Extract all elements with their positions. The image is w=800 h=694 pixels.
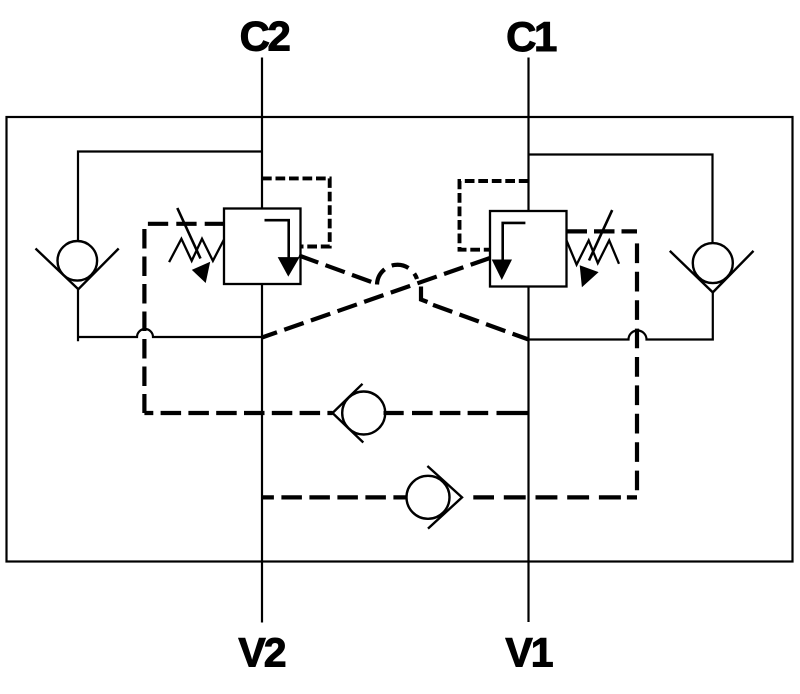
CB1 spring	[567, 240, 620, 264]
pilot check valve PC2 circle	[407, 476, 450, 519]
svg-text:C2: C2	[240, 13, 290, 60]
CB2 internal pilot loop (dashed)	[262, 178, 330, 246]
cross pilot line B (dashed)	[262, 258, 490, 338]
svg-text:V2: V2	[238, 630, 285, 676]
pilot line right vertical (dashed)	[635, 243, 639, 497]
wire C2 vertical lower	[261, 284, 263, 623]
cross pilot line A hop arc (dashed)	[377, 265, 417, 285]
wire top right branch	[529, 155, 713, 244]
svg-text:C1: C1	[506, 13, 557, 60]
cross pilot line A hop tail	[421, 287, 428, 303]
pilot line left vertical (dashed)	[142, 229, 146, 413]
CB1 internal pilot loop (dashed)	[460, 181, 529, 250]
manifold block outline	[7, 117, 793, 562]
counterbalance valve CB2 body	[224, 209, 301, 285]
svg-text:V1: V1	[505, 630, 552, 676]
wire top left branch	[78, 152, 262, 242]
CB2 adjustment slash	[177, 208, 200, 259]
check valve CV2 circle	[58, 241, 98, 281]
pilot line lower-mid horizontal right (dashed)	[462, 495, 637, 499]
CB1 spring pilot line (dashed)	[567, 229, 638, 233]
pilot line upper-mid horizontal (dashed)	[384, 411, 529, 415]
wire C1 vertical lower	[527, 287, 529, 623]
wire C2 vertical upper	[261, 58, 263, 209]
CB2 adjustment arrowhead	[192, 262, 210, 283]
CB1 adjustment slash	[589, 210, 612, 260]
CB2 internal flow path	[265, 220, 289, 258]
CB2 spring	[169, 239, 224, 262]
CB1 internal flow arrow	[492, 260, 512, 281]
pilot check valve PC2 seat	[427, 466, 462, 529]
check valve CV2 seat	[36, 249, 119, 290]
CB2 spring pilot line (dashed)	[148, 222, 224, 226]
check valve CV1 circle	[693, 243, 733, 283]
wire C1 vertical upper	[527, 58, 529, 212]
pilot line lower-left horizontal (dashed)	[144, 411, 332, 415]
counterbalance valve CB1 body	[490, 211, 567, 287]
wire bottom right branch with crossover hop	[529, 292, 713, 339]
wire bottom left branch with crossover hop	[78, 289, 262, 341]
cross pilot line A upper segment (dashed)	[299, 256, 377, 285]
CB1 internal flow path	[503, 223, 526, 260]
CB1 adjustment arrowhead	[580, 265, 599, 287]
pilot check valve PC1 circle	[342, 392, 385, 435]
pilot check valve PC1 seat	[333, 384, 364, 443]
pilot line lower-mid horizontal left (dashed)	[262, 495, 406, 499]
cross pilot line A lower segment (dashed)	[433, 305, 529, 340]
CB2 internal flow arrow	[278, 257, 300, 277]
check valve CV1 seat	[670, 251, 754, 293]
